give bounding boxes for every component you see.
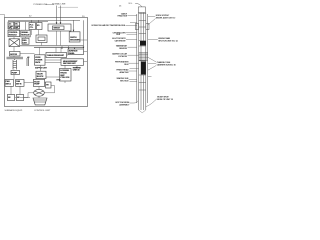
svg-text:HEAD SUB: HEAD SUB xyxy=(117,15,127,18)
svg-text:UPPER TELEMETRY CARTRIDGE SUB: UPPER TELEMETRY CARTRIDGE SUB xyxy=(91,24,125,27)
svg-text:ADAPTER: ADAPTER xyxy=(119,71,128,74)
svg-text:N2: N2 xyxy=(17,97,20,99)
svg-text:PUMP: PUMP xyxy=(34,84,40,86)
svg-text:I/O: I/O xyxy=(37,25,40,27)
svg-text:CTL: CTL xyxy=(30,27,34,29)
svg-text:RV: RV xyxy=(46,85,49,87)
svg-text:GUN: GUN xyxy=(124,64,129,66)
svg-text:LOCATOR: LOCATOR xyxy=(118,55,128,58)
svg-text:CABLE DRUM UNIT: CABLE DRUM UNIT xyxy=(47,54,65,57)
svg-text:SET B: SET B xyxy=(16,84,22,86)
svg-text:PANEL: PANEL xyxy=(69,52,76,55)
svg-text:CTRL SYS: CTRL SYS xyxy=(60,77,70,79)
svg-text:SENSOR: SENSOR xyxy=(119,48,128,50)
svg-text:RECORD UNIT: RECORD UNIT xyxy=(63,63,76,65)
svg-text:CONTROL UNIT: CONTROL UNIT xyxy=(34,110,51,112)
svg-text:42: 42 xyxy=(27,56,30,59)
svg-text:PUMP: PUMP xyxy=(12,73,18,75)
svg-text:BLOCK: BLOCK xyxy=(37,76,44,78)
svg-text:SPL: SPL xyxy=(9,28,13,30)
svg-text:MODULE: MODULE xyxy=(21,34,30,36)
svg-text:ASSEMBLY: ASSEMBLY xyxy=(119,103,130,106)
svg-text:W.L.: W.L. xyxy=(129,3,134,5)
svg-text:ENCODER: ENCODER xyxy=(70,40,80,42)
svg-text:26: 26 xyxy=(119,6,122,8)
svg-text:SUPPLY UNIT: SUPPLY UNIT xyxy=(35,67,48,69)
svg-text:WINCH: WINCH xyxy=(54,28,61,30)
svg-text:CARTRIDGE: CARTRIDGE xyxy=(115,39,127,42)
svg-text:MOTOR: MOTOR xyxy=(10,54,17,56)
svg-text:NOSE TIP UNIT 18: NOSE TIP UNIT 18 xyxy=(157,99,174,101)
svg-text:MODULE: MODULE xyxy=(9,34,18,36)
svg-text:POWER LINE: POWER LINE xyxy=(34,4,48,6)
svg-text:CARRIER SUB NO. 16: CARRIER SUB NO. 16 xyxy=(157,64,177,67)
svg-text:HYD: HYD xyxy=(57,80,62,82)
svg-text:SET A: SET A xyxy=(6,83,12,86)
svg-text:PACK: PACK xyxy=(35,61,41,64)
svg-text:SWIVEL ASSY UNIT 12: SWIVEL ASSY UNIT 12 xyxy=(156,16,176,19)
svg-text:UNIT 30: UNIT 30 xyxy=(73,70,81,72)
svg-text:SURFACE EQUIP.: SURFACE EQUIP. xyxy=(5,109,23,112)
svg-text:SPL: SPL xyxy=(15,28,19,30)
svg-text:SECTION: SECTION xyxy=(120,80,129,82)
svg-text:SIGNAL LINE: SIGNAL LINE xyxy=(52,3,66,6)
svg-text:SUB: SUB xyxy=(116,34,121,36)
svg-text:N2: N2 xyxy=(8,97,11,99)
svg-text:SECTION UNIT NO. 14: SECTION UNIT NO. 14 xyxy=(158,41,178,43)
